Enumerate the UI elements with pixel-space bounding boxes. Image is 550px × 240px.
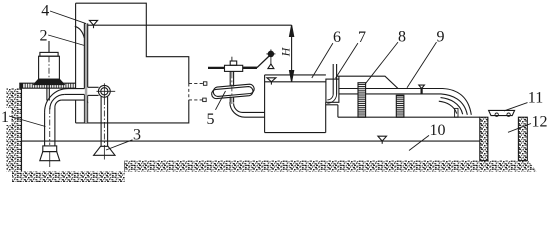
dashed port upper from head tank xyxy=(189,82,207,86)
svg-text:6: 6 xyxy=(333,29,341,46)
svg-text:7: 7 xyxy=(358,29,366,46)
pipe 1 suction elbow (horizontal run + bend) xyxy=(45,89,88,113)
elbow from valve into measuring tank xyxy=(230,102,265,117)
ground: sump floor stipple xyxy=(12,172,125,183)
svg-text:4: 4 xyxy=(41,3,49,20)
dashed port lower from head tank xyxy=(189,98,206,102)
weigh cart 11 on box 12 xyxy=(489,110,515,116)
sump box 12 walls xyxy=(480,117,528,160)
ground: sump left wall stipple xyxy=(7,89,22,172)
svg-text:3: 3 xyxy=(133,126,141,143)
capsule loop of valve 5 xyxy=(212,84,254,98)
leader for label 3 xyxy=(106,140,133,150)
svg-text:H: H xyxy=(279,46,293,57)
svg-text:1: 1 xyxy=(1,109,9,126)
head tank outline xyxy=(76,3,189,123)
spout support xyxy=(455,108,458,117)
pump shaft below platform xyxy=(47,85,49,101)
water level symbol on flume xyxy=(419,85,425,94)
H dimension line xyxy=(290,25,294,82)
tee fitting circle on discharge xyxy=(88,83,116,99)
ground: main ground strip xyxy=(125,161,537,172)
leader for label 1 xyxy=(9,116,46,127)
step under stilling box xyxy=(326,105,338,117)
leader for label 11 xyxy=(504,103,528,111)
pipe 3 drop pipe xyxy=(101,97,108,147)
leader for label 5 xyxy=(216,91,226,110)
svg-text:11: 11 xyxy=(528,89,543,106)
leader for label 10 xyxy=(409,135,429,150)
head water level line to H dimension xyxy=(88,24,292,26)
pipe 3 bell mouth xyxy=(94,146,115,159)
water level symbol at head tank xyxy=(89,20,97,28)
pipe 2 riser inside head tank xyxy=(84,23,87,123)
platform slab over sump xyxy=(19,83,75,88)
svg-text:12: 12 xyxy=(532,114,548,131)
pipe 1 bell mouth xyxy=(40,108,60,167)
wire: lower channel water line across rig xyxy=(22,140,480,142)
water level in measuring tank xyxy=(265,78,326,85)
svg-text:2: 2 xyxy=(40,28,48,45)
label 1 xyxy=(0,108,12,125)
funnel curve at riser top xyxy=(75,26,85,38)
leader for label 9 xyxy=(407,42,437,88)
leader for label 6 xyxy=(312,43,333,78)
threaded column 8b xyxy=(396,95,404,117)
svg-text:10: 10 xyxy=(430,122,446,139)
valve 5 stem top xyxy=(208,57,257,72)
leader for label 4 xyxy=(50,11,86,24)
svg-text:5: 5 xyxy=(207,111,215,128)
stilling box with gauge tube (6/7) xyxy=(326,64,339,103)
valve 5 stem xyxy=(230,71,233,104)
pipe 1 vertical suction pipe xyxy=(45,107,55,146)
point gauge dial and base xyxy=(266,49,275,68)
svg-text:9: 9 xyxy=(437,28,445,45)
leader for label 12 xyxy=(508,124,531,133)
measuring tank (middle) xyxy=(265,75,326,133)
leader for label 2 xyxy=(48,35,84,46)
leader for label 8 xyxy=(366,42,398,83)
threaded column 8a xyxy=(358,83,366,118)
flume cover plate with slope xyxy=(337,76,398,88)
water level symbol in channel 10 xyxy=(378,136,387,144)
flume discharge rail (double) and spout 9 xyxy=(339,89,471,115)
ground: step between sump floor and main ground xyxy=(124,161,126,172)
svg-text:8: 8 xyxy=(398,28,406,45)
motor M on platform xyxy=(34,41,65,85)
point gauge arm xyxy=(243,55,271,68)
leader for label 7 xyxy=(336,43,358,78)
flume floor / channel top line xyxy=(338,116,480,118)
